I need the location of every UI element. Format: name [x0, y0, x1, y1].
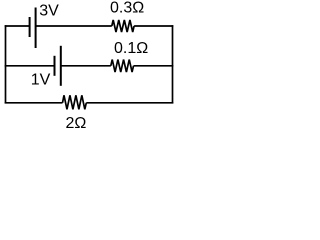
battery 1V short plate (negative) — [54, 56, 56, 76]
battery 3V short plate (negative) — [29, 17, 31, 37]
wire right vertical — [172, 25, 174, 103]
wire middle right segment — [134, 65, 174, 67]
svg-text:0.3Ω: 0.3Ω — [110, 0, 144, 17]
battery 1V long plate (positive) — [60, 46, 62, 86]
svg-text:2Ω: 2Ω — [66, 115, 87, 132]
svg-text:1V: 1V — [31, 71, 51, 88]
wire top left segment — [5, 25, 30, 27]
wire bottom left segment — [5, 102, 63, 104]
wire top middle segment — [36, 25, 112, 27]
svg-text:3V: 3V — [39, 3, 59, 20]
wire top right segment — [134, 25, 173, 27]
wire bottom right segment — [86, 102, 173, 104]
resistor 0.3ohm zigzag — [112, 20, 134, 32]
svg-text:0.1Ω: 0.1Ω — [114, 40, 148, 57]
resistor 0.1ohm zigzag — [111, 60, 134, 73]
battery 3V long plate (positive) — [35, 8, 37, 49]
wire middle left segment — [5, 65, 55, 67]
resistor 2ohm zigzag — [63, 95, 87, 109]
wire left vertical — [5, 25, 7, 103]
wire middle segment to resistor — [61, 65, 111, 67]
